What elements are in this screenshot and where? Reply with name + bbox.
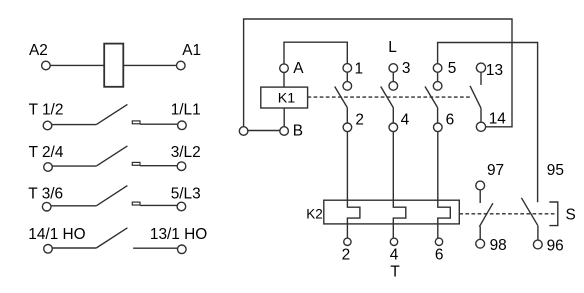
svg-text:B: B (293, 122, 303, 139)
svg-text:T 1/2: T 1/2 (29, 102, 64, 119)
svg-text:1/L1: 1/L1 (171, 102, 201, 119)
svg-text:13: 13 (486, 62, 503, 79)
svg-text:96: 96 (547, 237, 564, 254)
svg-text:T 2/4: T 2/4 (29, 144, 64, 161)
svg-text:S: S (566, 207, 576, 224)
svg-text:1: 1 (355, 61, 364, 78)
svg-text:K2: K2 (306, 206, 323, 221)
svg-text:97: 97 (487, 162, 504, 179)
svg-text:T: T (390, 264, 400, 281)
svg-text:4: 4 (401, 111, 410, 128)
svg-text:2: 2 (342, 247, 351, 264)
svg-text:6: 6 (435, 247, 444, 264)
svg-text:3: 3 (402, 60, 411, 77)
svg-text:95: 95 (547, 162, 564, 179)
svg-text:5/L3: 5/L3 (171, 185, 201, 202)
svg-text:K1: K1 (278, 91, 295, 107)
svg-text:A1: A1 (182, 42, 201, 59)
svg-text:6: 6 (446, 111, 455, 128)
svg-text:3/L2: 3/L2 (171, 144, 201, 161)
svg-text:4: 4 (390, 247, 399, 264)
svg-text:13/1 HO: 13/1 HO (150, 226, 207, 243)
svg-text:98: 98 (490, 237, 507, 254)
svg-text:14: 14 (489, 111, 507, 128)
svg-text:A2: A2 (29, 42, 48, 59)
svg-text:T 3/6: T 3/6 (28, 185, 63, 202)
svg-text:2: 2 (355, 111, 364, 128)
svg-text:L: L (388, 39, 397, 56)
svg-text:14/1 HO: 14/1 HO (28, 226, 85, 243)
svg-text:5: 5 (448, 60, 457, 77)
svg-text:A: A (293, 60, 304, 77)
